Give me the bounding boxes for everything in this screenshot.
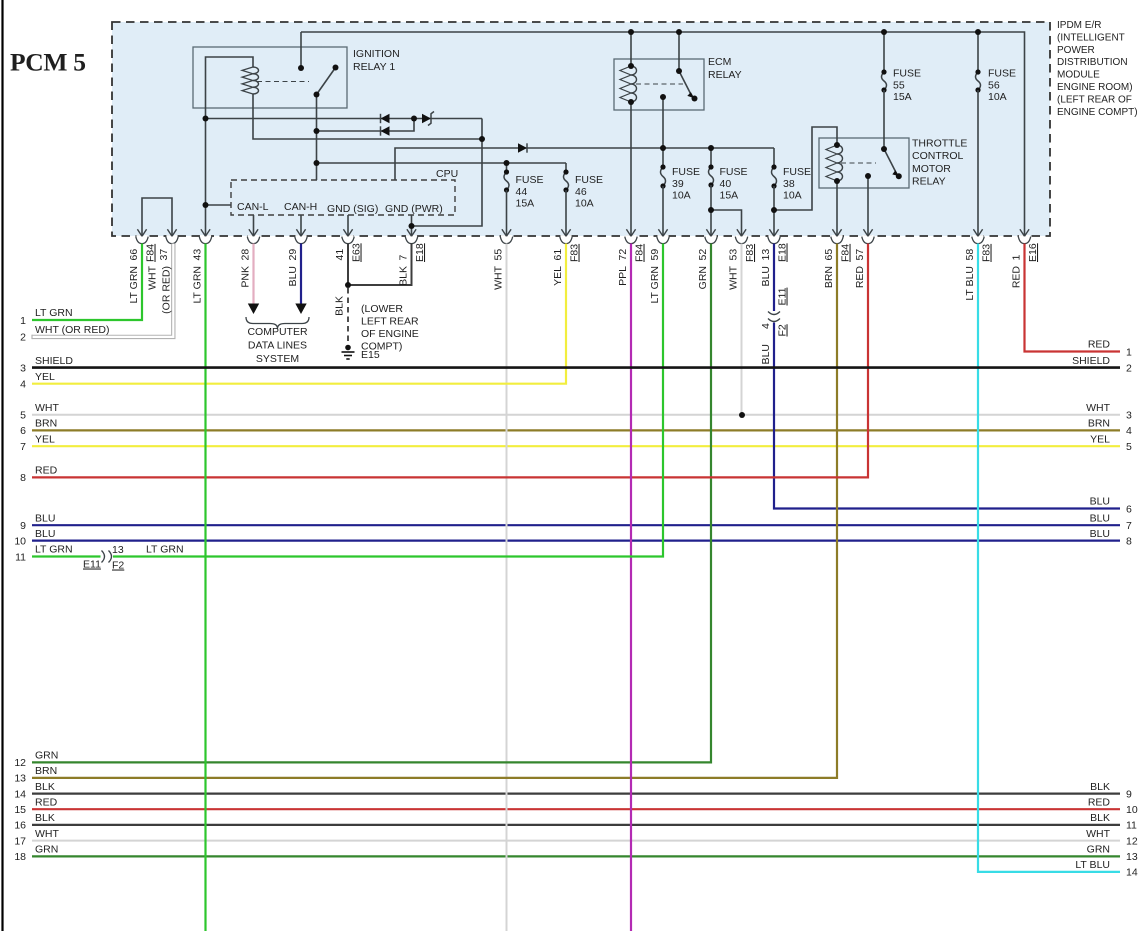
svg-text:1: 1: [20, 315, 26, 327]
svg-text:LT GRN: LT GRN: [35, 307, 73, 319]
svg-text:F83: F83: [744, 244, 756, 262]
svg-text:LT GRN: LT GRN: [649, 266, 661, 304]
svg-text:58: 58: [964, 249, 976, 261]
svg-text:(OR RED): (OR RED): [161, 266, 173, 314]
svg-text:FUSE: FUSE: [516, 174, 544, 186]
svg-text:LT GRN: LT GRN: [192, 266, 204, 304]
svg-text:CAN-H: CAN-H: [284, 201, 317, 213]
svg-text:E11: E11: [83, 559, 101, 571]
svg-text:28: 28: [240, 249, 252, 261]
svg-text:MOTOR: MOTOR: [912, 163, 951, 175]
svg-text:ENGINE ROOM): ENGINE ROOM): [1057, 82, 1133, 93]
svg-text:MODULE: MODULE: [1057, 70, 1100, 81]
svg-text:IGNITION: IGNITION: [353, 48, 400, 60]
svg-text:LEFT REAR: LEFT REAR: [361, 316, 419, 328]
svg-text:GRN: GRN: [1087, 844, 1110, 856]
svg-text:72: 72: [617, 249, 629, 261]
svg-text:4: 4: [760, 323, 772, 329]
svg-text:7: 7: [20, 441, 26, 453]
svg-text:YEL: YEL: [1090, 433, 1110, 445]
svg-text:BLU: BLU: [760, 344, 772, 364]
svg-text:15A: 15A: [516, 198, 535, 210]
svg-text:11: 11: [15, 551, 26, 563]
svg-text:3: 3: [20, 362, 26, 374]
svg-text:CPU: CPU: [436, 168, 458, 180]
svg-text:BLK: BLK: [334, 296, 346, 316]
svg-text:10: 10: [14, 535, 26, 547]
svg-text:57: 57: [854, 249, 866, 261]
svg-text:3: 3: [1126, 410, 1132, 422]
svg-text:(LEFT REAR OF: (LEFT REAR OF: [1057, 94, 1132, 105]
svg-text:BLK: BLK: [1090, 781, 1110, 793]
svg-text:BLU: BLU: [760, 266, 772, 286]
svg-text:RELAY 1: RELAY 1: [353, 61, 395, 73]
svg-text:BLU: BLU: [35, 528, 55, 540]
svg-text:F2: F2: [112, 560, 124, 572]
svg-text:43: 43: [192, 249, 204, 261]
svg-text:13: 13: [14, 773, 26, 785]
svg-text:IPDM E/R: IPDM E/R: [1057, 20, 1101, 31]
svg-text:(INTELLIGENT: (INTELLIGENT: [1057, 32, 1125, 43]
svg-text:YEL: YEL: [35, 371, 55, 383]
svg-text:SHIELD: SHIELD: [35, 355, 73, 367]
svg-text:FUSE: FUSE: [988, 68, 1016, 80]
svg-text:66: 66: [128, 249, 140, 261]
svg-text:8: 8: [20, 472, 26, 484]
svg-text:E18: E18: [414, 243, 426, 262]
svg-text:10A: 10A: [575, 198, 594, 210]
svg-text:9: 9: [20, 520, 26, 532]
svg-text:(LOWER: (LOWER: [361, 303, 403, 315]
svg-text:GND (PWR): GND (PWR): [385, 203, 443, 215]
svg-text:YEL: YEL: [552, 266, 564, 286]
svg-text:LT GRN: LT GRN: [128, 266, 140, 304]
svg-text:44: 44: [516, 186, 528, 198]
svg-text:E18: E18: [777, 243, 789, 262]
svg-text:15A: 15A: [893, 91, 912, 103]
svg-text:13: 13: [112, 544, 124, 556]
svg-text:14: 14: [14, 788, 26, 800]
svg-text:F83: F83: [569, 244, 581, 262]
svg-text:BLU: BLU: [35, 512, 55, 524]
svg-text:SYSTEM: SYSTEM: [256, 353, 299, 365]
svg-text:BLU: BLU: [1090, 512, 1110, 524]
svg-text:PNK: PNK: [240, 266, 252, 288]
svg-text:4: 4: [1126, 425, 1132, 437]
svg-text:GND (SIG): GND (SIG): [327, 203, 378, 215]
svg-text:WHT: WHT: [728, 265, 740, 289]
svg-text:WHT: WHT: [1086, 402, 1110, 414]
svg-text:F83: F83: [981, 244, 993, 262]
svg-text:61: 61: [552, 249, 564, 261]
svg-text:2: 2: [20, 332, 26, 344]
svg-text:BRN: BRN: [823, 266, 835, 288]
svg-text:12: 12: [1126, 835, 1138, 847]
svg-text:OF ENGINE: OF ENGINE: [361, 328, 419, 340]
svg-text:F84: F84: [145, 244, 157, 262]
svg-text:COMPUTER: COMPUTER: [247, 326, 308, 338]
svg-text:BLK: BLK: [1090, 812, 1110, 824]
svg-text:BLU: BLU: [287, 266, 299, 286]
svg-text:10A: 10A: [988, 91, 1007, 103]
svg-text:DISTRIBUTION: DISTRIBUTION: [1057, 57, 1128, 68]
svg-text:RELAY: RELAY: [708, 69, 742, 81]
svg-text:WHT: WHT: [35, 402, 59, 414]
svg-text:52: 52: [697, 249, 709, 261]
svg-text:5: 5: [20, 410, 26, 422]
svg-text:10: 10: [1126, 804, 1138, 816]
svg-text:FUSE: FUSE: [720, 166, 748, 178]
svg-text:ECM: ECM: [708, 56, 731, 68]
svg-text:RELAY: RELAY: [912, 176, 946, 188]
svg-text:56: 56: [988, 79, 1000, 91]
svg-text:59: 59: [649, 249, 661, 261]
svg-text:GRN: GRN: [35, 844, 58, 856]
svg-text:DATA LINES: DATA LINES: [248, 340, 307, 352]
svg-text:46: 46: [575, 186, 587, 198]
svg-text:F84: F84: [634, 244, 646, 262]
svg-text:WHT: WHT: [147, 265, 159, 289]
svg-text:18: 18: [14, 851, 26, 863]
svg-text:55: 55: [893, 79, 905, 91]
svg-text:SHIELD: SHIELD: [1072, 355, 1110, 367]
svg-text:53: 53: [728, 249, 740, 261]
svg-text:15A: 15A: [720, 190, 739, 202]
svg-text:15: 15: [14, 804, 26, 816]
svg-text:7: 7: [1126, 520, 1132, 532]
svg-text:PPL: PPL: [617, 266, 629, 286]
svg-text:THROTTLE: THROTTLE: [912, 138, 967, 150]
svg-text:WHT: WHT: [35, 828, 59, 840]
svg-text:LT GRN: LT GRN: [146, 544, 184, 556]
svg-text:55: 55: [493, 249, 505, 261]
svg-text:F2: F2: [777, 324, 789, 336]
svg-text:10A: 10A: [783, 190, 802, 202]
svg-text:4: 4: [20, 379, 26, 391]
svg-text:7: 7: [398, 255, 410, 261]
svg-text:BLU: BLU: [1090, 496, 1110, 508]
svg-text:16: 16: [14, 820, 26, 832]
svg-text:BRN: BRN: [35, 765, 57, 777]
svg-text:6: 6: [1126, 503, 1132, 515]
svg-text:RED: RED: [854, 266, 866, 289]
svg-text:PCM 5: PCM 5: [10, 48, 86, 77]
svg-text:GRN: GRN: [697, 266, 709, 289]
svg-text:6: 6: [20, 425, 26, 437]
svg-text:9: 9: [1126, 788, 1132, 800]
svg-text:ENGINE COMPT): ENGINE COMPT): [1057, 107, 1138, 118]
svg-text:BLK: BLK: [35, 812, 55, 824]
svg-text:13: 13: [1126, 851, 1138, 863]
svg-text:RED: RED: [1011, 266, 1023, 289]
svg-text:2: 2: [1126, 362, 1132, 374]
svg-text:FUSE: FUSE: [575, 174, 603, 186]
svg-text:13: 13: [760, 249, 772, 261]
svg-text:65: 65: [823, 249, 835, 261]
svg-text:1: 1: [1011, 255, 1023, 261]
svg-text:LT BLU: LT BLU: [964, 266, 976, 301]
svg-text:WHT (OR RED): WHT (OR RED): [35, 324, 109, 336]
svg-text:RED: RED: [1088, 796, 1111, 808]
svg-text:BRN: BRN: [1088, 418, 1110, 430]
svg-text:40: 40: [720, 178, 732, 190]
svg-text:RED: RED: [1088, 339, 1111, 351]
svg-text:BRN: BRN: [35, 418, 57, 430]
svg-text:YEL: YEL: [35, 433, 55, 445]
svg-text:FUSE: FUSE: [893, 68, 921, 80]
svg-text:CONTROL: CONTROL: [912, 150, 963, 162]
svg-text:GRN: GRN: [35, 750, 58, 762]
svg-text:14: 14: [1126, 867, 1138, 879]
svg-text:RED: RED: [35, 796, 58, 808]
svg-text:37: 37: [158, 249, 170, 261]
svg-text:LT BLU: LT BLU: [1075, 859, 1110, 871]
svg-text:E63: E63: [351, 243, 363, 262]
svg-text:BLK: BLK: [35, 781, 55, 793]
svg-text:F84: F84: [840, 244, 852, 262]
svg-text:FUSE: FUSE: [783, 166, 811, 178]
svg-text:39: 39: [672, 178, 684, 190]
svg-text:BLU: BLU: [1090, 528, 1110, 540]
svg-text:WHT: WHT: [493, 265, 505, 289]
svg-text:12: 12: [14, 757, 26, 769]
svg-text:41: 41: [334, 249, 346, 261]
svg-text:E11: E11: [777, 287, 789, 305]
svg-text:WHT: WHT: [1086, 828, 1110, 840]
svg-text:1: 1: [1126, 346, 1132, 358]
svg-text:38: 38: [783, 178, 795, 190]
svg-text:BLK: BLK: [398, 266, 410, 286]
svg-text:29: 29: [287, 249, 299, 261]
svg-text:E16: E16: [1027, 243, 1039, 262]
svg-text:10A: 10A: [672, 190, 691, 202]
svg-text:FUSE: FUSE: [672, 166, 700, 178]
svg-text:CAN-L: CAN-L: [237, 201, 269, 213]
svg-text:RED: RED: [35, 465, 58, 477]
svg-text:5: 5: [1126, 441, 1132, 453]
svg-text:17: 17: [14, 835, 26, 847]
svg-text:LT GRN: LT GRN: [35, 544, 73, 556]
svg-text:E15: E15: [361, 349, 380, 361]
svg-text:POWER: POWER: [1057, 45, 1095, 56]
svg-text:8: 8: [1126, 535, 1132, 547]
svg-text:11: 11: [1126, 820, 1137, 832]
